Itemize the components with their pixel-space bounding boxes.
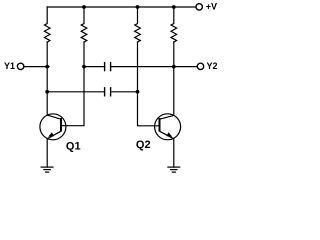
svg-text:Q1: Q1 [66, 140, 81, 152]
wire Q1 emitter to ground [46, 139, 48, 168]
wire node A to C2 [47, 91, 104, 93]
wire Q1 base [61, 42, 84, 126]
junction dot node A2 (Q1 collector / C2) [45, 90, 49, 94]
terminal Y1 [17, 63, 23, 69]
wire node B to C1 [84, 66, 105, 68]
wire Q2 emitter to ground [173, 139, 175, 168]
junction dot node C (Q2 base / C2) [136, 90, 140, 94]
resistor R1 [44, 7, 50, 42]
wire +V rail [47, 6, 196, 8]
junction dot rail/R3 [136, 5, 140, 9]
svg-text:Q2: Q2 [136, 139, 151, 151]
junction dot rail/R4 [172, 5, 176, 9]
wire C1 to Y2 [111, 66, 198, 68]
svg-text:+V: +V [206, 1, 217, 11]
junction dot rail/R2 [82, 5, 86, 9]
terminal +V [196, 4, 202, 10]
ground (Q1 emitter) [41, 167, 54, 172]
transistor Q2 [155, 114, 181, 140]
wire C2 to node C [111, 91, 138, 93]
junction dot node B (Q1 base / C1) [82, 65, 86, 69]
wire Q1 collector [46, 42, 48, 115]
wire Q2 base [138, 42, 160, 126]
resistor R4 [171, 7, 177, 42]
wire Y1 to node A [24, 66, 49, 68]
resistor R2 [81, 7, 87, 42]
capacitor C2 [105, 88, 111, 96]
svg-text:Y1: Y1 [4, 61, 15, 71]
capacitor C1 [105, 63, 111, 71]
junction dot node A (Y1 / Q1 collector) [45, 65, 49, 69]
terminal Y2 [197, 63, 203, 69]
wire Q2 collector [173, 42, 175, 115]
resistor R3 [135, 7, 141, 42]
junction dot node D (Q2 collector / Y2) [172, 65, 176, 69]
ground (Q2 emitter) [167, 167, 180, 172]
transistor Q1 [40, 114, 66, 140]
svg-text:Y2: Y2 [207, 61, 218, 71]
